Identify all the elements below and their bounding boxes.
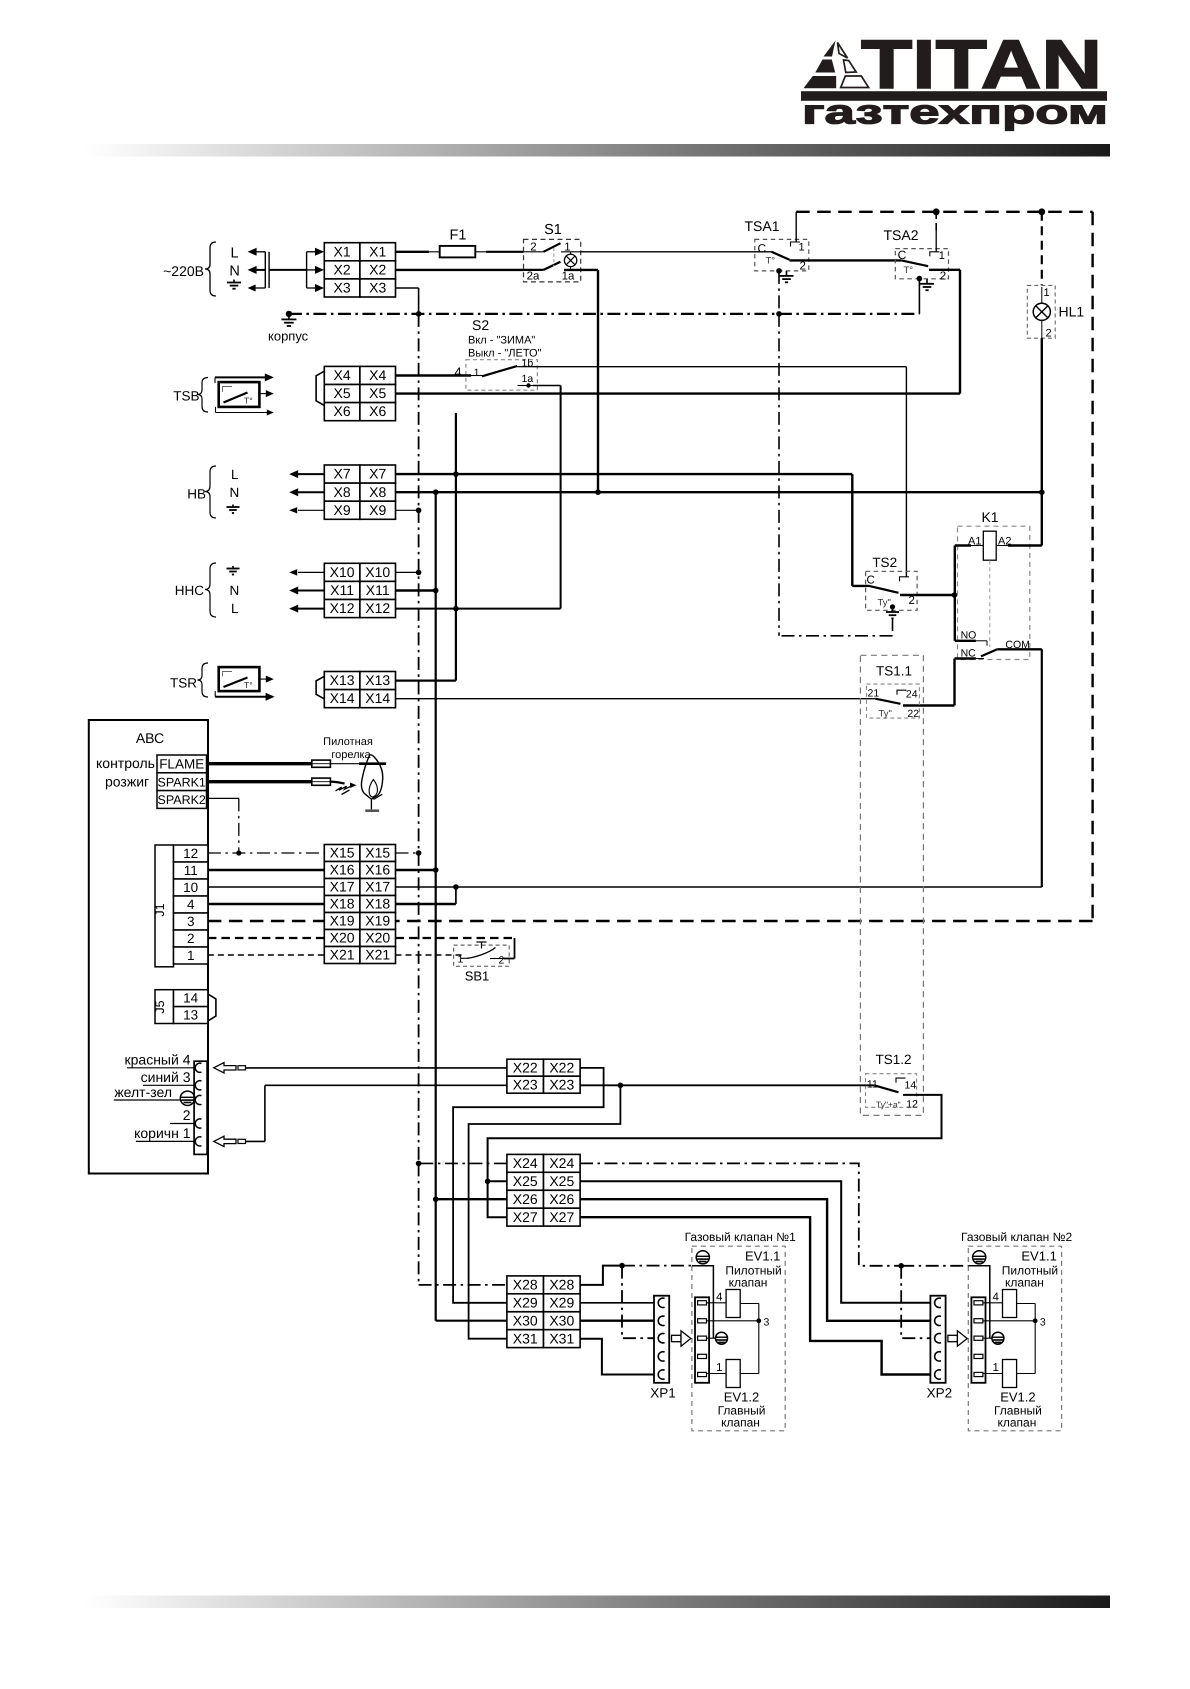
wire X26 left to N bus [436,1198,507,1200]
terminal SPARK2 [157,791,207,809]
svg-text:X19: X19 [365,913,390,929]
svg-text:X17: X17 [330,879,355,895]
wire X3 to chassis [396,287,419,289]
svg-text:X6: X6 [369,403,386,419]
svg-text:X2: X2 [334,262,351,278]
svg-text:22: 22 [907,708,919,720]
svg-text:1: 1 [458,954,464,966]
dashed net bottom edge to X19 [396,920,1093,922]
svg-text:X29: X29 [513,1294,538,1310]
terminal block X1-X3 [324,243,360,261]
svg-text:TS2: TS2 [872,555,897,570]
svg-text:L: L [231,601,239,616]
wire S1 1a down to X8 node [564,269,598,271]
chassis vertical dash-dot bus [418,314,420,1164]
ground symbol HHC [232,566,234,569]
wire J1-4 to X18 [208,903,324,905]
svg-text:2: 2 [1046,328,1052,340]
svg-text:1: 1 [716,1362,722,1374]
wire X10 to chassis [396,571,419,573]
wire K1 COM to X17 [997,648,1042,650]
svg-text:газтехпром: газтехпром [802,94,1108,132]
connector key X13-X14 [316,676,324,699]
wire X24 to valve2 ground [580,1163,901,1265]
svg-text:SB1: SB1 [465,969,490,984]
svg-text:X31: X31 [549,1330,574,1346]
svg-text:Ту"+а": Ту"+а" [876,1099,901,1109]
svg-text:X19: X19 [330,913,355,929]
svg-text:X7: X7 [334,466,351,482]
chassis bus to X28 [418,1163,420,1285]
svg-text:EV1.2: EV1.2 [1000,1390,1035,1405]
svg-text:11: 11 [184,863,198,878]
svg-text:2: 2 [940,270,946,282]
svg-text:13: 13 [183,1007,198,1022]
svg-text:X16: X16 [365,862,390,878]
wire J1-11 to X16 [208,869,324,871]
svg-text:X28: X28 [513,1277,538,1293]
svg-text:Т°: Т° [766,256,776,267]
svg-text:N: N [229,264,239,280]
svg-text:TSR: TSR [170,676,197,691]
svg-text:X20: X20 [330,930,355,946]
svg-text:X8: X8 [334,484,351,500]
svg-text:14: 14 [183,991,199,1006]
svg-text:X28: X28 [549,1277,574,1293]
svg-text:TSA1: TSA1 [744,218,779,234]
TITAN logo pyramid [804,41,869,89]
svg-text:X13: X13 [365,672,390,688]
K1 contact NO [955,640,976,642]
wire X25 left stub [488,1180,507,1182]
arrow TSB to X4 [214,378,216,384]
svg-text:X1: X1 [369,243,386,259]
svg-text:желт-зел: желт-зел [114,1084,172,1100]
wire SPARK2 to J1-12 net [207,797,239,799]
svg-text:1a: 1a [562,271,575,283]
wire S1 to TSA1 [581,251,772,253]
svg-text:синий 3: синий 3 [141,1069,191,1085]
node N-X11 [433,588,439,594]
ABC harness connector strip [194,1061,207,1154]
svg-text:X10: X10 [330,564,355,580]
svg-text:розжиг: розжиг [105,774,149,790]
chassis branch TSA1 to TS2 [778,314,780,636]
arrow TSR to X13 [259,678,266,680]
svg-text:клапан: клапан [1005,1276,1044,1290]
arrow X12 out [298,608,324,610]
wire pin4 coil EV1.1 valve 2 [983,1302,1003,1304]
svg-text:SPARK1: SPARK1 [157,775,205,789]
wire J1-3 to X19 dashed [208,920,324,922]
svg-text:X4: X4 [334,367,351,383]
wire X7 to TS2 C [396,473,853,475]
wire X21 to SB1 [396,954,465,956]
wire TSA1 pin1 up to dashed net [795,212,797,242]
PE symbol valve 1 top [696,1251,709,1264]
svg-text:X23: X23 [549,1076,574,1092]
svg-text:X22: X22 [513,1059,538,1075]
svg-text:4: 4 [454,365,461,380]
svg-text:TSA2: TSA2 [883,227,918,243]
L chain vertical [455,474,457,608]
wire X9 to chassis [396,509,419,511]
node X8-N [433,489,439,495]
arrow TSR to X14 [214,691,216,697]
svg-text:1b: 1b [522,357,534,369]
wire X11 stub [396,589,436,591]
svg-text:1a: 1a [522,373,534,385]
svg-text:X12: X12 [330,600,355,616]
arrow X10 out [298,571,324,573]
svg-text:TS1.2: TS1.2 [875,1052,911,1067]
svg-text:3: 3 [187,914,195,929]
connector key J5 [208,994,216,1021]
svg-text:X25: X25 [513,1173,538,1189]
arrow PE mains [252,287,265,289]
svg-text:2: 2 [909,595,915,607]
svg-text:Т°: Т° [244,680,253,690]
svg-text:X26: X26 [513,1191,538,1207]
svg-text:X8: X8 [369,484,386,500]
svg-text:X24: X24 [549,1155,574,1171]
svg-text:1: 1 [187,948,195,963]
svg-text:3: 3 [1040,1316,1046,1328]
wire TSA1 ground down (chassis) [778,271,780,314]
svg-text:14: 14 [905,1080,917,1092]
node S2 1a [526,383,530,387]
arrow into valve 2 [948,1331,967,1346]
svg-text:N: N [230,583,240,598]
plug arrow pin4 [214,1063,236,1073]
svg-text:Т°: Т° [244,396,253,406]
svg-text:L: L [231,467,239,482]
terminal block X7-X9 [324,465,360,483]
svg-text:X24: X24 [513,1155,538,1171]
node L-X12 [453,606,459,612]
connector J5 pins [174,990,208,1007]
arrow X9 out [298,509,324,511]
brace NB [205,466,216,518]
ground symbol TS2 [892,607,894,612]
wire COM-X17 horizontal [396,886,1042,888]
svg-text:TS1.1: TS1.1 [876,664,912,679]
thermostat TS2 [866,555,918,610]
svg-text:X13: X13 [330,672,355,688]
brace HHC [205,563,216,617]
svg-text:3: 3 [764,1316,770,1328]
wire pin2 node3 valve 2 [983,1320,1035,1322]
svg-text:X25: X25 [549,1173,574,1189]
connector J1 frame [155,845,174,967]
connector XP1 [654,1296,669,1383]
arrow into valve 1 [672,1331,691,1346]
thermostat TSR [170,663,259,697]
thermostat TS1.1 [867,664,920,720]
node HL1-X8 [1039,489,1045,495]
arrow X7 out [298,473,324,475]
wire J1-2 to X20 dashed [208,937,324,939]
svg-text:X31: X31 [513,1330,538,1346]
svg-text:1: 1 [992,1362,998,1374]
wire A1 node down to NO [954,595,956,641]
svg-text:X27: X27 [549,1209,574,1225]
wire X25 to XP2 pin1 [580,1181,932,1303]
connector J1 pins [174,845,208,862]
ground symbol NB [232,505,234,508]
brace 220V [205,242,216,296]
mains cable bus [264,252,266,288]
svg-text:X14: X14 [365,690,390,706]
node X23 branch [618,1083,624,1089]
ground symbol TSA2 [926,279,928,284]
wire mains to terminals [269,269,307,271]
svg-text:X11: X11 [330,582,354,598]
svg-text:J1: J1 [153,903,167,916]
node SPARK2-12 [236,850,241,855]
terminal block X15-X21 [324,845,360,862]
wire TSA2 pin2 to X5 [929,269,960,271]
svg-text:J5: J5 [153,1000,167,1013]
terminal SPARK1 [157,773,207,791]
L chain stub top [455,413,457,474]
arrow TSB to X5 [259,393,266,395]
node chassis-X3 [416,311,422,317]
N bus vertical [435,492,437,590]
terminal block X13-X14 [324,672,360,690]
wire ground into valve2 [901,1265,968,1267]
coil EV1.2 valve 1 [726,1360,740,1388]
coil EV1.2 valve 2 [1003,1360,1017,1388]
svg-text:11: 11 [867,1078,878,1090]
svg-text:X3: X3 [369,280,386,296]
svg-text:2a: 2a [527,271,540,283]
wire F1 to S1 [486,251,523,253]
svg-text:клапан: клапан [997,1416,1036,1430]
svg-text:X22: X22 [549,1059,574,1075]
svg-text:Газовый клапан №2: Газовый клапан №2 [961,1230,1073,1244]
wire pin1 coil EV1.2 valve 1 [707,1373,727,1375]
relay K1 [958,509,1030,660]
wire TS1.2 pin12 to X25/X27 [488,1095,942,1217]
wire X17-X18 link [455,887,457,904]
node TSA2 pin1 on dashed net [933,208,940,215]
PE symbol valve 1 inner [716,1332,728,1344]
svg-text:X3: X3 [334,280,351,296]
svg-text:X20: X20 [365,930,390,946]
wire X22 to X29 [453,1068,603,1303]
svg-text:X23: X23 [513,1076,538,1092]
svg-text:XP1: XP1 [650,1386,676,1401]
outer dashed box TS1 [860,655,923,1115]
wire X1 to F1 [396,251,429,253]
svg-text:X5: X5 [334,385,351,401]
wire X28 to valve1 ground [580,1266,622,1285]
svg-text:X1: X1 [334,243,351,259]
wire TSA2 ground to chassis line [918,279,920,314]
svg-text:X14: X14 [330,690,355,706]
svg-text:4: 4 [716,1291,723,1303]
node chassis-X10 [416,570,422,576]
lamp HL1 [1027,285,1084,339]
svg-text:Ту": Ту" [878,598,891,609]
svg-text:клапан: клапан [729,1276,768,1290]
dashed net right edge [1091,212,1093,921]
svg-text:24: 24 [906,689,918,701]
terminal FLAME [157,755,207,773]
svg-text:1: 1 [1044,287,1050,299]
svg-text:S2: S2 [472,317,489,333]
connector J5 frame [155,990,174,1024]
svg-text:2: 2 [800,261,806,273]
thermostat TSB [173,378,259,413]
svg-text:X5: X5 [369,385,386,401]
wire X23 to X31 [469,1085,621,1338]
svg-text:X9: X9 [334,502,351,518]
arrow L mains [252,251,265,253]
PE symbol valve 2 top [973,1251,986,1264]
svg-text:2: 2 [499,955,505,967]
svg-text:X9: X9 [369,502,386,518]
svg-text:X15: X15 [365,845,390,861]
chassis dash-dot line [289,313,920,315]
svg-text:2: 2 [187,931,195,946]
switch S1 [524,222,581,283]
wire X16 to N bus [396,869,436,871]
wire X14 to TS1.1 [396,698,876,700]
node chassis-X9 [416,508,422,514]
wire valve 1 internal ground [692,1266,714,1339]
wire ground to XP2 pin3 [901,1266,932,1338]
wire coil EV1.2 to node3 valve 1 [740,1373,759,1375]
svg-text:L: L [231,246,239,262]
dashed net top edge [796,211,1092,213]
node TS2-A1-NO [952,592,958,598]
wire TS2 pin2 to K1 A1 node [900,594,955,596]
node HL1 on dashed net [1038,208,1045,215]
gas valve 1 box [692,1246,785,1431]
wire X29 to XP1 pin1 [580,1302,656,1304]
svg-text:X29: X29 [549,1294,574,1310]
node TS2 ground [890,604,895,609]
arrow X11 out [298,590,324,592]
terminal block X24-X27 [507,1154,544,1172]
svg-text:C: C [867,575,875,587]
svg-text:12: 12 [183,846,198,861]
svg-text:Пилотная: Пилотная [323,736,373,748]
wire J1-10 to X17 [208,886,324,888]
terminal block X10-X12 [324,563,360,581]
svg-text:X6: X6 [334,403,351,419]
node chassis-X15 [416,850,422,856]
plug arrow pin1 [214,1136,236,1146]
svg-text:X30: X30 [549,1312,574,1328]
wire J1-1 to X21 dashed [208,954,324,956]
svg-text:X11: X11 [366,582,390,598]
wire K1 A2 to X8 node [1008,544,1042,546]
wire X12 to S2 1a drop [396,608,561,610]
wire S2 1b to TS2 [533,366,906,368]
svg-text:1: 1 [799,242,805,254]
svg-text:TSB: TSB [173,389,199,404]
wire pin4 to X22 [246,1067,507,1069]
K1 contact COM arm [981,649,997,656]
arrow into X1 [307,251,315,253]
thermostat TSA1 [744,218,808,273]
wire coil EV1.1 to node3 valve 1 [740,1303,759,1305]
svg-text:АВС: АВС [136,730,164,746]
wire J1-12 to X15 [208,852,324,854]
connector key X4-X5 [316,371,324,405]
node 3 valve 2 [1033,1318,1038,1323]
node L-X7 [453,471,459,477]
svg-text:X10: X10 [365,564,390,580]
wire TSA1 pin2 to TSA2 [790,259,902,261]
svg-text:4: 4 [992,1291,999,1303]
svg-text:X26: X26 [549,1191,574,1207]
flame stem and ground [370,799,372,810]
valve 1 connector strip [695,1297,709,1383]
wire valve 2 internal ground [968,1266,990,1339]
svg-text:X30: X30 [513,1312,538,1328]
node X17 junction [453,884,459,890]
gas valve 2 box [968,1246,1061,1431]
wire HL1 down to X8 node [1041,338,1043,492]
wire X4 to S2 [396,374,472,376]
ground symbol TSA1 [786,271,788,276]
svg-text:клапан: клапан [721,1416,760,1430]
wire X2 to S1 [396,269,524,271]
svg-text:2: 2 [183,1107,191,1123]
svg-text:ННС: ННС [175,583,204,598]
svg-text:коричн 1: коричн 1 [134,1125,191,1141]
wire FLAME electrode [207,762,312,765]
wire pin1 to X23 [246,1140,265,1142]
svg-text:НВ: НВ [187,487,206,502]
wire pin2 node3 valve 1 [707,1320,759,1322]
svg-text:X21: X21 [330,947,355,963]
thermostat TS1.2 [866,1052,919,1110]
wire pin3 PE valve 2 [983,1337,992,1339]
svg-text:FLAME: FLAME [159,757,204,772]
node TSA2 ground [917,276,923,282]
svg-text:контроль: контроль [96,755,155,771]
svg-text:4: 4 [187,897,195,912]
button SB1 [454,942,510,984]
svg-text:Вкл - "ЗИМА": Вкл - "ЗИМА" [468,335,535,347]
arrow X8 out [298,491,324,493]
wire X15 to chassis [396,852,419,854]
wire X5 to TSA2 pin2 [396,392,961,394]
wire coil EV1.2 to node3 valve 2 [1017,1373,1036,1375]
wire K1 A1 to TS2 node [955,544,971,546]
svg-text:12: 12 [906,1098,918,1110]
TITAN logo bar [801,91,1107,101]
svg-text:X12: X12 [365,600,390,616]
valve 2 connector strip [971,1297,985,1383]
svg-text:K1: K1 [981,509,998,525]
node valve1 ground [619,1263,625,1269]
svg-text:1: 1 [474,367,480,379]
K1 contact NC [955,657,976,659]
wire X26 to XP2 pin2 [580,1199,932,1321]
svg-text:~220В: ~220В [163,263,204,279]
svg-text:N: N [230,485,240,500]
PE symbol valve 2 inner [992,1332,1004,1344]
wire ground to XP1 pin3 [622,1266,656,1339]
wire X23 to TS1.2 pin11 [580,1084,874,1086]
thermostat TSA2 [883,227,948,282]
